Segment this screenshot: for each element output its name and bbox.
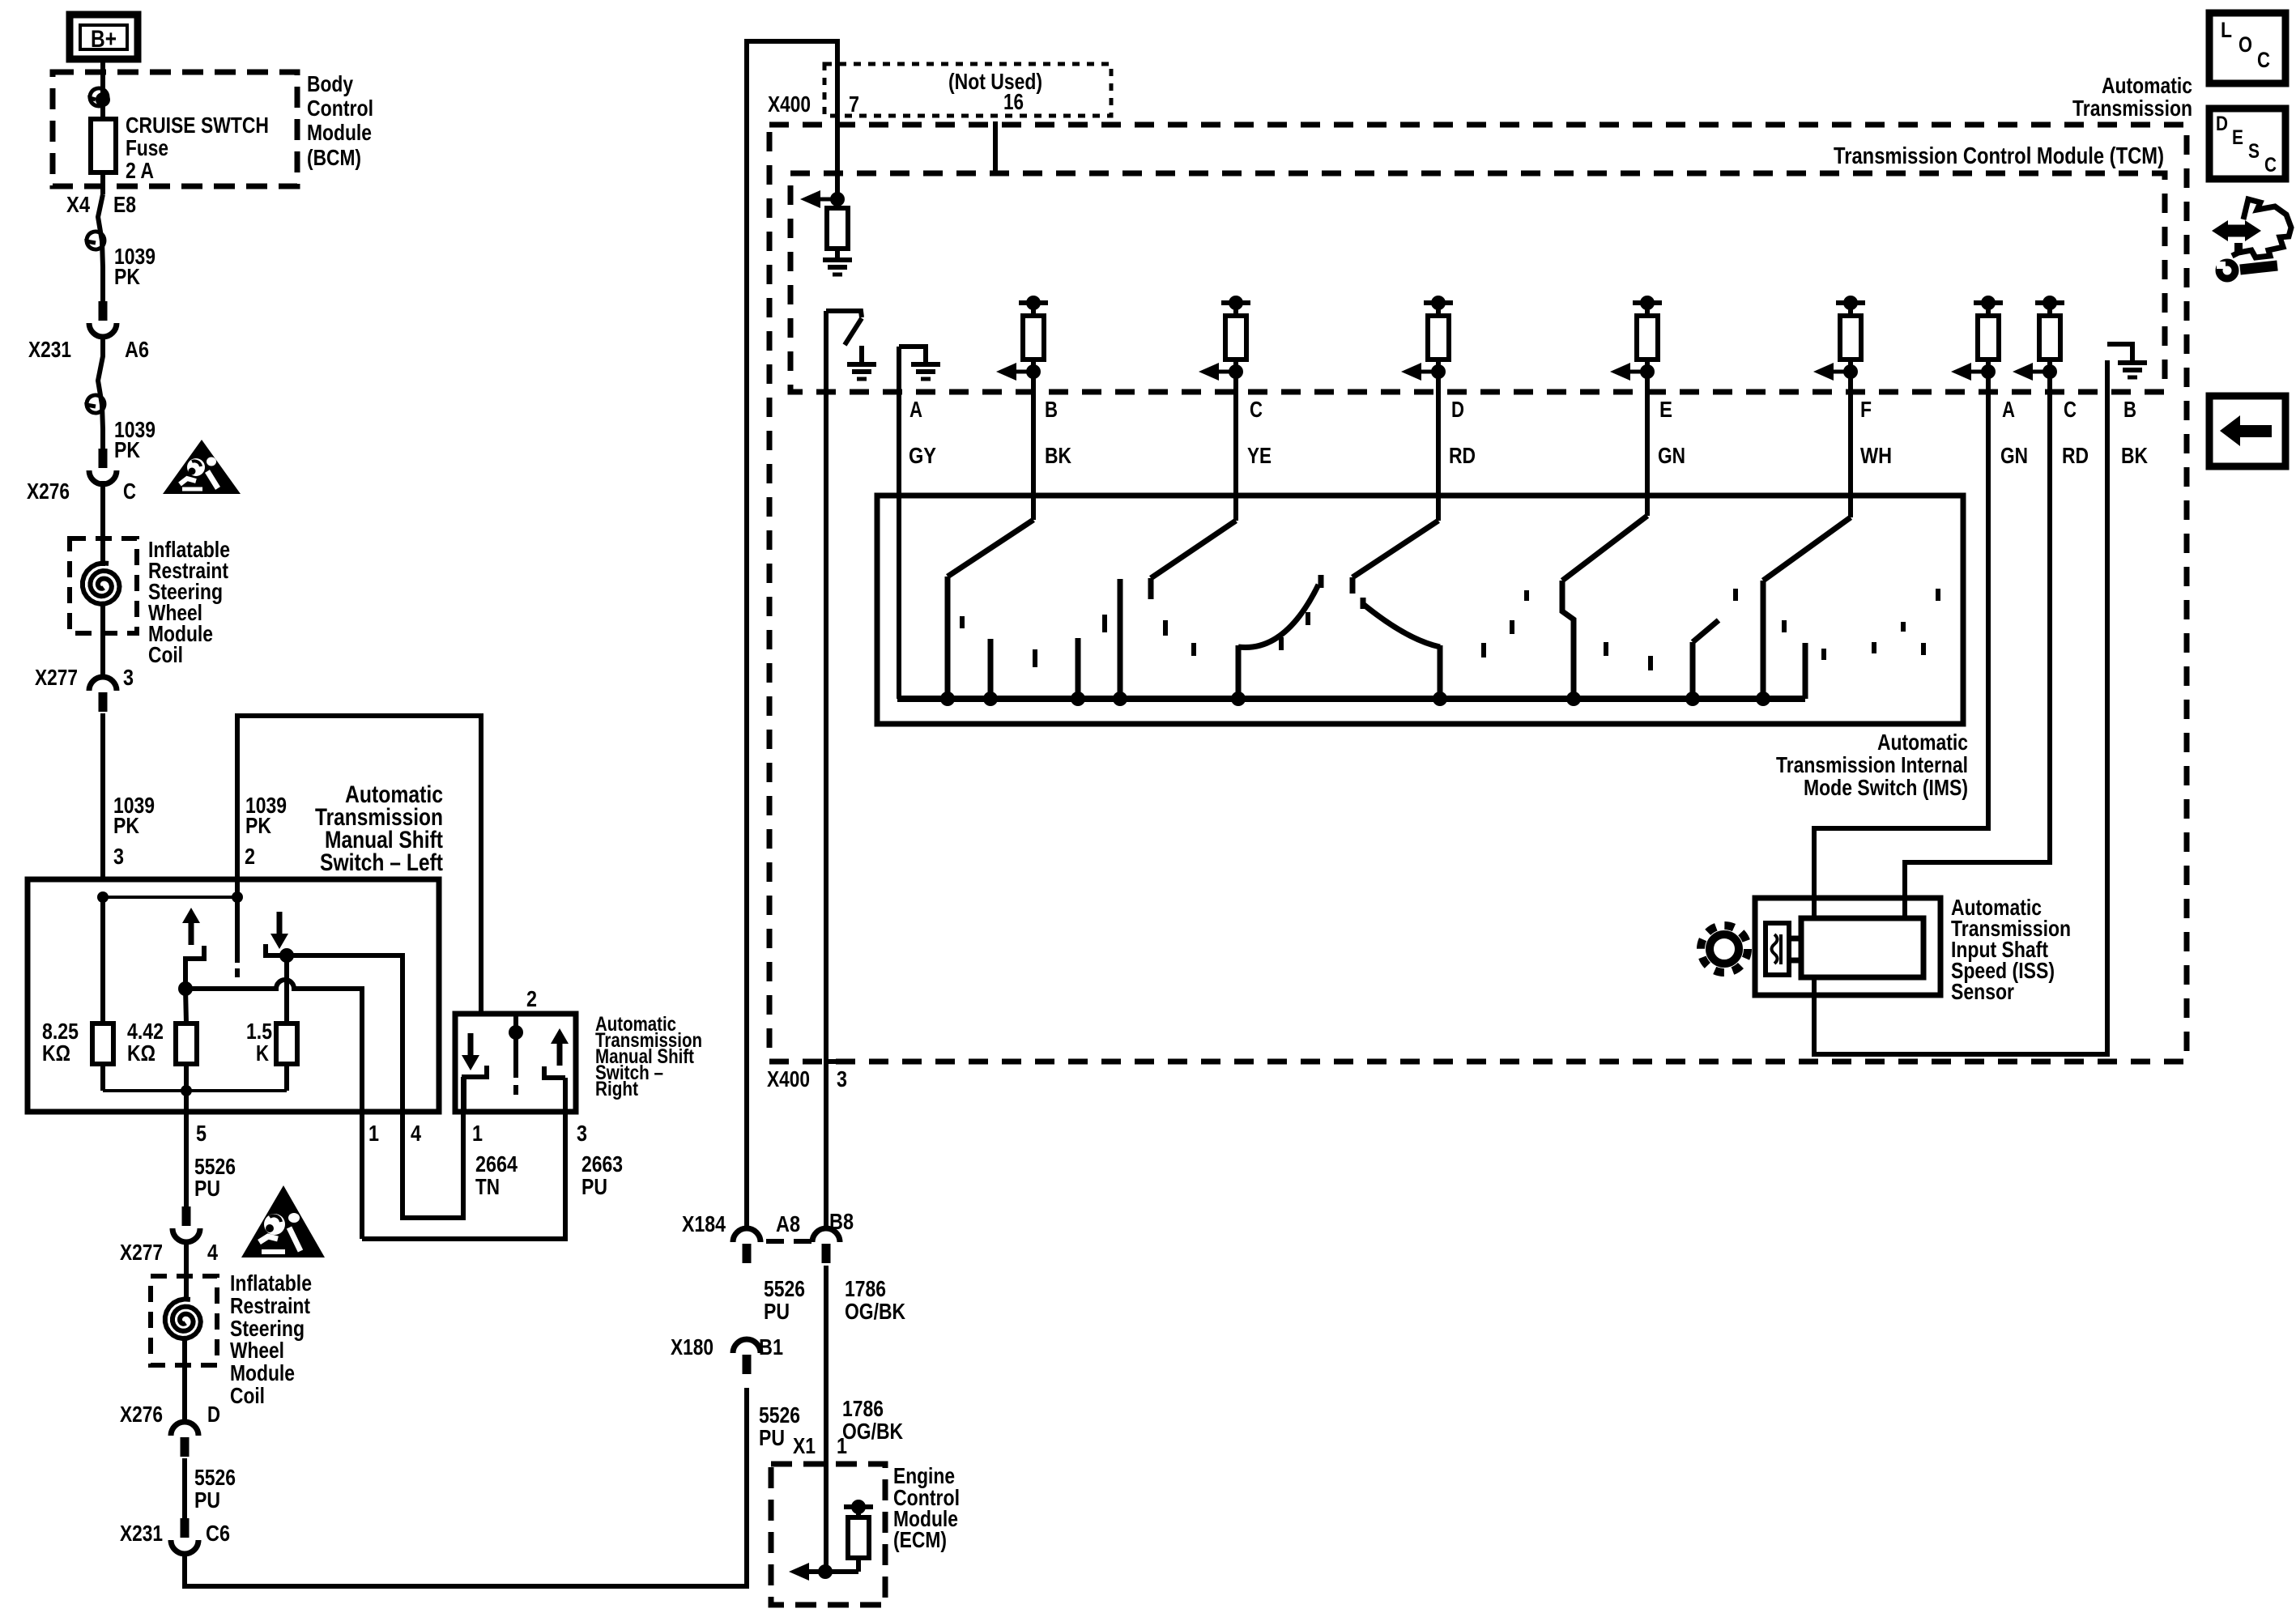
inline connector X277 4 [182,1206,191,1226]
TCM pullup arrow X400-7 [800,190,820,208]
svg-text:TN: TN [475,1174,500,1199]
svg-text:3: 3 [577,1121,587,1146]
label pin 2 right box [526,986,537,1011]
up contact bracket [185,946,204,989]
fuse CRUISE SWTCH 2A [91,119,116,172]
svg-text:E8: E8 [113,192,136,217]
fuse clip curl [90,88,108,106]
svg-text:PU: PU [759,1425,785,1450]
label X1 1 [793,1433,847,1458]
IMS arc D right [1363,604,1440,647]
wire down-contact to pin4 [287,955,463,1218]
label X277 3 [35,665,134,690]
svg-text:Fuse: Fuse [126,135,168,160]
svg-text:X400: X400 [767,1066,810,1091]
svg-text:BK: BK [1045,443,1071,468]
TCM pullup resistor X400-7 [827,208,848,249]
svg-text:1786: 1786 [842,1396,884,1421]
ECM arrow [789,1563,809,1581]
svg-text:Coil: Coil [230,1383,265,1408]
svg-text:RD: RD [2062,443,2089,468]
wire 1786 OG/BK in TCM [824,311,829,1228]
wire RD pin D blade [1436,372,1441,521]
wire RD pin C right [1905,372,2050,918]
wire GN pin A right [1814,372,1988,918]
resistor bus left box [103,1089,287,1092]
thin link wire3-wire2 [103,896,237,899]
svg-text:3: 3 [123,665,134,690]
svg-text:RD: RD [1449,443,1476,468]
inline connector X184 A8 [733,1228,760,1242]
label Automatic Transmission Input Shaft Speed (ISS) Sensor [1951,895,2071,1004]
labels pins 1 3 right box [472,1121,587,1146]
label 1039 PK pin 3 [113,793,155,869]
label Transmission Control Module (TCM) [1834,143,2164,169]
svg-text:Inflatable: Inflatable [230,1270,312,1296]
SRS warning triangle lower [241,1185,325,1257]
svg-text:Module: Module [230,1360,295,1385]
svg-text:B: B [1045,397,1058,422]
label Automatic Transmission Internal Mode Switch (IMS) [1776,730,1968,800]
IMS finger C2 [1118,579,1123,699]
label X231 C6 [120,1521,230,1546]
svg-text:Body: Body [307,71,353,96]
TCM pullup resistor pin E [1610,296,1662,381]
resistor 8.25K [100,897,105,1023]
tick X400 3 [826,1059,846,1064]
IMS contact tick marks [962,589,1938,670]
svg-text:CRUISE SWTCH: CRUISE SWTCH [126,113,269,138]
gear icon [1701,926,1748,972]
svg-text:BK: BK [2121,443,2148,468]
inline connector X276 C [99,449,108,468]
svg-text:1: 1 [837,1433,847,1458]
label 2664 TN [475,1151,518,1199]
svg-text:Wheel: Wheel [230,1338,284,1363]
up arrow right box [551,1028,569,1044]
label Inflatable Restraint Steering Wheel Module Coil (upper) [148,537,230,667]
TCM pullup resistor pin D [1401,296,1453,381]
svg-text:GN: GN [2000,443,2028,468]
label Inflatable Restraint Steering Wheel Module Coil (lower) [230,1270,312,1408]
svg-text:A: A [909,397,922,422]
svg-text:Transmission Internal: Transmission Internal [1776,752,1968,777]
wire bottom run to X180 column [185,1388,747,1586]
label X184 A8 B8 [682,1209,854,1236]
label Automatic Transmission Manual Shift Switch - Left [315,781,443,876]
wire GN pin E blade [1645,372,1650,516]
svg-text:X400: X400 [768,91,811,117]
wire YE pin C blade [1233,372,1238,521]
wire BK pin B right [1814,360,2107,1054]
TCM pullup resistor pin B [996,296,1048,381]
svg-text:A6: A6 [125,337,149,362]
svg-text:B1: B1 [759,1334,783,1360]
svg-text:(BCM): (BCM) [307,145,361,170]
svg-text:7: 7 [849,91,859,117]
dashed box Engine Control Module (ECM) [771,1464,885,1605]
dashed box Body Control Module (BCM) [53,72,297,186]
svg-text:PU: PU [194,1487,220,1513]
svg-text:3: 3 [113,844,124,869]
icon box LOC [2209,13,2285,83]
power symbol B+ [70,15,138,59]
svg-text:S: S [2248,140,2260,163]
switch contact TCM [826,311,862,317]
label X4 E8 [66,192,136,217]
svg-text:C: C [2257,48,2270,72]
dotted connector box X400 top [824,64,1111,116]
label 1.5 K [246,1019,272,1066]
wire out of coil lower [182,1340,187,1422]
svg-text:2664: 2664 [475,1151,518,1177]
inline connector X231 A6 [99,301,108,321]
box Automatic Transmission Internal Mode Switch [877,496,1963,724]
up arrow contact (resume) [182,908,200,923]
label X231 A6 [28,337,149,362]
connector X4 E8 [98,194,103,241]
svg-text:Automatic: Automatic [2102,73,2192,98]
svg-text:5526: 5526 [764,1276,805,1301]
svg-text:2: 2 [245,844,255,869]
svg-text:E: E [1659,397,1672,422]
svg-text:C: C [123,479,136,504]
TCM pullup resistor pin F [1813,296,1865,381]
down arrow right box [462,1055,479,1070]
svg-text:(Not Used): (Not Used) [948,69,1042,94]
svg-text:1: 1 [368,1121,379,1146]
label Engine Control Module (ECM) [893,1463,960,1552]
svg-text:1: 1 [472,1121,483,1146]
wire 1786 OG/BK to ECM [824,1266,829,1572]
ground contact TCM [859,346,864,362]
label Body Control Module (BCM) [307,71,373,170]
IMS finger C1 [1076,638,1081,699]
svg-text:Automatic: Automatic [1877,730,1968,755]
inline connector X276 D [171,1422,198,1436]
node junction wire3 [97,891,109,903]
IMS finger B2 [988,639,994,699]
svg-text:4: 4 [207,1240,218,1265]
IMS arc D left [1238,585,1318,648]
wire pin5 [184,1091,189,1206]
inline connector X184 B8 [812,1228,840,1242]
down contact bracket [266,944,285,955]
label X276 C [27,479,136,504]
labels IMS pin letters [909,397,2136,422]
wire WH pin F blade [1848,372,1853,517]
svg-text:Control: Control [307,96,373,121]
svg-text:F: F [1860,397,1872,422]
label (Not Used) 16 [948,69,1042,114]
svg-text:4: 4 [411,1121,421,1146]
svg-text:X180: X180 [671,1334,714,1360]
svg-text:Transmission Control Module (T: Transmission Control Module (TCM) [1834,143,2164,169]
svg-text:K: K [256,1040,269,1066]
svg-text:B+: B+ [91,26,117,53]
svg-text:5: 5 [196,1121,207,1146]
label 5526 PU pin5 [194,1154,236,1201]
label Automatic Transmission [2072,73,2192,121]
svg-text:D: D [1451,397,1464,422]
svg-text:D: D [2216,113,2228,135]
svg-text:Coil: Coil [148,642,183,667]
svg-text:L: L [2221,18,2232,42]
box ISS sensor outer [1755,898,1940,995]
svg-text:C6: C6 [206,1521,230,1546]
label 8.25 Kohm [42,1019,79,1066]
TCM pullup resistor pin C right [2013,296,2064,381]
down arrow contact (set) [270,934,288,949]
svg-text:A8: A8 [776,1211,800,1236]
svg-text:X231: X231 [120,1521,163,1546]
svg-text:X231: X231 [28,337,71,362]
wire 1039 PK segment 1 [102,241,103,301]
svg-text:Transmission: Transmission [2072,96,2192,121]
svg-text:GN: GN [1658,443,1685,468]
svg-text:(ECM): (ECM) [893,1527,947,1552]
wire B+ to fuse [100,59,105,194]
TCM pullup resistor pin A right [1951,296,2003,381]
labels 5526 PU / 1786 OG-BK upper [764,1276,905,1324]
svg-text:1786: 1786 [845,1276,886,1301]
clockspring coil symbol lower [165,1299,201,1338]
node junction wire2 [232,891,243,903]
label Automatic Transmission Manual Shift Switch - Right [595,1013,702,1100]
svg-text:Restraint: Restraint [230,1293,310,1318]
ECM resistor [844,1504,873,1509]
switch pole left box [235,897,240,963]
svg-text:A: A [2002,397,2015,422]
IMS bus right finger [1803,643,1808,699]
ground bracket pin B right [2107,344,2132,360]
clockspring coil symbol upper [83,563,120,603]
svg-text:X184: X184 [682,1211,726,1236]
svg-text:X1: X1 [793,1433,816,1458]
IMS bent finger F [1690,642,1696,699]
box ISS sensor inner [1801,918,1923,977]
label X180 B1 [671,1334,783,1360]
svg-text:KΩ: KΩ [127,1040,155,1066]
ground TCM pullup [823,257,852,262]
inline connector X277 3 [89,677,117,691]
wire 1039 PK pin2 hat [237,716,481,1014]
inline connector X231 C6 [181,1518,190,1538]
wire below X231 with curl [98,338,103,449]
box Manual Shift Switch Left [28,879,439,1112]
up bracket right box [544,1066,565,1078]
svg-text:C: C [1250,397,1263,422]
svg-text:D: D [207,1402,220,1427]
svg-text:PK: PK [114,437,140,462]
svg-text:X276: X276 [27,479,70,504]
inline connector X180 B1 [733,1339,760,1353]
label X400 7 [768,91,859,117]
ISS pickup element [1766,923,1789,975]
svg-text:Switch – Left: Switch – Left [320,849,443,876]
label CRUISE SWTCH Fuse 2 A [126,113,269,183]
svg-text:2663: 2663 [581,1151,623,1177]
icon box back arrow [2209,396,2285,466]
svg-text:5526: 5526 [194,1465,236,1490]
svg-text:3: 3 [837,1066,847,1091]
svg-text:PK: PK [245,813,271,838]
svg-text:PK: PK [114,264,140,289]
icon wrench and arrows [2212,220,2228,241]
label X276 D [120,1402,220,1427]
label 1039 PK (2) [114,417,155,462]
svg-text:KΩ: KΩ [42,1040,70,1066]
svg-text:B8: B8 [829,1209,854,1234]
wire out of coil upper [100,605,105,677]
TCM pullup resistor pin C [1199,296,1250,381]
node up contact [178,981,193,996]
label 2663 PU [581,1151,623,1199]
wire 5526 PU to X231 [182,1458,187,1518]
label X277 4 [120,1240,218,1265]
svg-text:B: B [2123,397,2136,422]
resistor 1.5K [284,955,289,1023]
wire 1039 PK pin3 [100,713,105,879]
svg-text:PK: PK [113,813,139,838]
label X400 3 [767,1066,847,1091]
down bracket right box [464,1066,487,1112]
svg-text:2 A: 2 A [126,158,154,183]
dashed coil box lower [151,1276,217,1365]
label 4.42 Kohm [127,1019,164,1066]
svg-text:C: C [2264,154,2277,177]
wire 2664 TN [461,1112,466,1218]
svg-text:OG/BK: OG/BK [842,1419,903,1444]
wire into coil lower [184,1242,189,1301]
svg-text:Sensor: Sensor [1951,979,2014,1004]
stub pin 16 [993,121,998,173]
wire GY pin A [897,347,901,699]
dashed box Automatic Transmission [769,125,2187,1062]
box Manual Shift Switch Right [455,1014,576,1112]
svg-text:PU: PU [581,1174,607,1199]
svg-text:C: C [2064,397,2077,422]
svg-text:Mode Switch (IMS): Mode Switch (IMS) [1804,775,1968,800]
svg-text:YE: YE [1247,443,1272,468]
labels pins 5 1 4 of left box [196,1121,421,1146]
svg-text:E: E [2232,126,2243,149]
wire 5526 PU riser [747,41,837,1228]
svg-text:X277: X277 [120,1240,163,1265]
labels IMS wire colors [909,443,2148,468]
label 5526 PU mid [194,1465,236,1513]
node down contact [279,948,294,963]
svg-text:16: 16 [1003,89,1024,114]
icon box DESC [2209,109,2285,179]
label 1039 PK pin 2 [245,793,287,869]
svg-text:PU: PU [764,1299,790,1324]
svg-text:Module: Module [307,120,372,145]
dashed coil box upper [70,538,137,633]
connector link dashes X184 [766,1239,784,1244]
svg-text:PU: PU [194,1176,220,1201]
svg-text:X4: X4 [66,192,90,217]
SRS warning triangle upper [163,440,241,494]
svg-text:Right: Right [595,1078,639,1100]
wire into coil upper [100,481,105,566]
svg-text:X277: X277 [35,665,78,690]
switch pole right box [513,1014,518,1078]
labels 5526 PU / 1786 OG-BK lower [759,1396,903,1450]
svg-text:OG/BK: OG/BK [845,1299,905,1324]
svg-text:X276: X276 [120,1402,163,1427]
svg-text:5526: 5526 [759,1402,800,1428]
ground bracket pin A GY [899,347,926,362]
svg-text:O: O [2238,32,2252,57]
svg-text:WH: WH [1860,443,1892,468]
svg-text:GY: GY [909,443,936,468]
svg-text:2: 2 [526,986,537,1011]
label 1039 PK (1) [114,244,155,289]
resistor 4.42K [185,989,186,1023]
dashed box Transmission Control Module (TCM) [790,173,2165,392]
wire up-contact to pin1 with hop [185,980,362,1239]
wire BK pin B blade [1031,372,1036,520]
IMS common bus [897,696,1805,702]
